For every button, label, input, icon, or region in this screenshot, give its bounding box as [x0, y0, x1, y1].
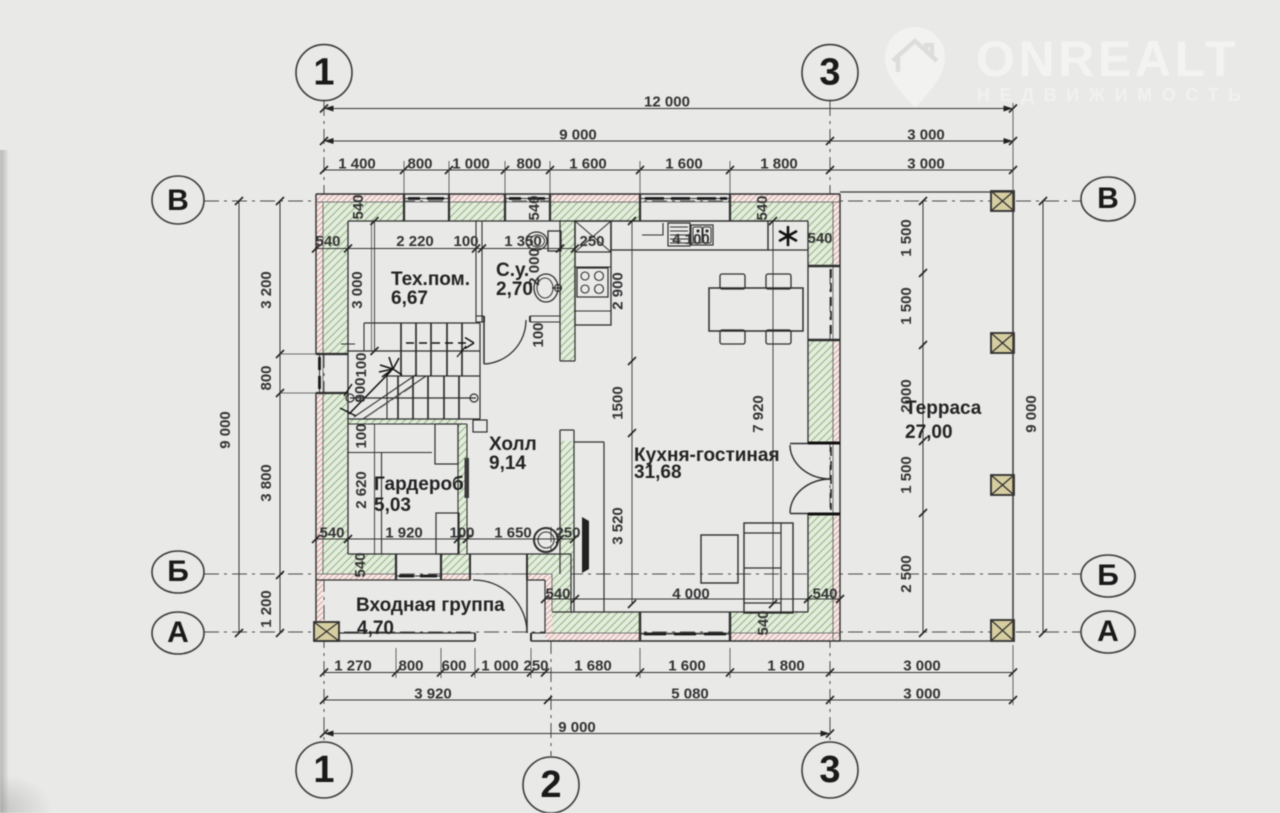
dim row bottom 1: chain [324, 672, 1013, 674]
axis line 2 (vertical, bottom only) [550, 527, 552, 756]
annex right wall, green [552, 574, 571, 612]
svg-text:3 000: 3 000 [349, 271, 366, 309]
dim row top 3: chain [324, 169, 1013, 171]
landing edge line near window [341, 343, 355, 345]
svg-text:1: 1 [313, 51, 334, 93]
axis circle B right [1081, 555, 1135, 597]
door opening annex bottom (entrance) [474, 633, 476, 641]
wardrobe shelving [347, 452, 432, 454]
svg-text:9 000: 9 000 [559, 127, 597, 144]
svg-text:100: 100 [453, 233, 478, 250]
svg-text:С.у.: С.у. [496, 260, 529, 281]
sink bathroom [534, 274, 558, 302]
svg-text:Входная группа: Входная группа [356, 595, 505, 616]
post at stair corner [473, 420, 487, 432]
svg-text:А: А [167, 616, 189, 649]
svg-text:1 920: 1 920 [385, 525, 423, 542]
svg-text:540: 540 [352, 552, 369, 577]
dim row top 2: 9000 + 3000 [324, 140, 1013, 142]
extension lines bottom [395, 648, 397, 678]
svg-text:Б: Б [167, 555, 189, 588]
axis circle 3 top [802, 45, 858, 101]
exterior wall right, red outer layer [833, 202, 840, 266]
terrace columns [991, 191, 1014, 211]
svg-text:2 220: 2 220 [396, 233, 434, 250]
dining table [709, 288, 803, 331]
svg-text:250: 250 [555, 525, 580, 542]
svg-text:540: 540 [545, 586, 570, 603]
svg-text:1 500: 1 500 [898, 287, 915, 325]
svg-text:Б: Б [1097, 559, 1119, 592]
exterior wall top, red outer layer [316, 194, 404, 202]
exterior wall right, green layer [808, 202, 833, 266]
svg-text:3 920: 3 920 [414, 686, 452, 703]
exterior wall left, green inner layer [323, 221, 348, 354]
exterior wall bottom, green layer [552, 612, 640, 633]
wall outlines [316, 193, 840, 195]
tech room dim double line [371, 221, 373, 351]
svg-text:4 100: 4 100 [672, 231, 710, 248]
axis circle A left [152, 612, 204, 654]
svg-text:1 800: 1 800 [767, 658, 805, 675]
svg-text:5 080: 5 080 [671, 686, 709, 703]
watermark logo ONREALT [885, 27, 1251, 108]
svg-text:3 000: 3 000 [907, 156, 945, 173]
svg-text:540: 540 [350, 194, 367, 219]
dim row bottom 2 [324, 699, 1013, 701]
svg-text:250: 250 [579, 233, 604, 250]
interior dim line y539 [316, 538, 574, 540]
svg-text:1 500: 1 500 [898, 219, 915, 257]
svg-text:4,70: 4,70 [357, 618, 394, 639]
svg-text:1 350: 1 350 [504, 233, 542, 250]
terrace outline [1012, 192, 1014, 641]
svg-text:3 000: 3 000 [903, 686, 941, 703]
svg-text:3 000: 3 000 [907, 127, 945, 144]
extension lines left [280, 353, 316, 355]
interior dim line y599 [545, 598, 840, 600]
axis circle 1 bottom [296, 742, 352, 798]
svg-text:2: 2 [540, 764, 561, 806]
svg-text:7 920: 7 920 [750, 395, 767, 433]
svg-text:1 600: 1 600 [668, 658, 706, 675]
window W1 top wall [403, 194, 405, 221]
tv console [574, 441, 604, 443]
door hall-annex [469, 554, 471, 580]
stove 4 burners [577, 268, 608, 297]
interior wall right of bathroom, green [560, 221, 575, 361]
svg-text:В: В [1097, 182, 1119, 215]
svg-text:Холл: Холл [489, 434, 537, 455]
svg-text:ONREALT: ONREALT [976, 31, 1239, 87]
window right wall kitchen [808, 265, 840, 267]
svg-text:3: 3 [819, 51, 840, 93]
svg-text:3 800: 3 800 [258, 464, 275, 502]
window wardrobe south wall [395, 554, 397, 580]
stair handrail [350, 397, 476, 399]
dim row top 1: 12000 [324, 108, 1013, 110]
south wall of hall/wardrobe, green layer [322, 554, 396, 574]
svg-text:600: 600 [441, 658, 466, 675]
south wall of hall, red layer [316, 574, 396, 580]
svg-text:540: 540 [807, 230, 832, 247]
axis circle 3 bottom [802, 742, 858, 798]
stair small dims [374, 424, 376, 554]
svg-text:9 000: 9 000 [1023, 395, 1040, 433]
wardrobe sliding door dark [465, 458, 470, 498]
stair break lines [354, 374, 417, 417]
svg-text:900: 900 [352, 377, 369, 402]
axis line B (horizontal) [204, 200, 1081, 202]
stair direction arrow [349, 371, 391, 414]
axis line A (horizontal) [204, 631, 1081, 633]
window bottom wall kitchen [639, 612, 641, 641]
svg-text:5,03: 5,03 [374, 495, 411, 516]
dim row bottom 3: 9000 [324, 733, 830, 735]
svg-text:100: 100 [530, 322, 547, 347]
svg-text:Терраса: Терраса [905, 398, 982, 419]
svg-text:1 200: 1 200 [258, 590, 275, 628]
svg-text:1 400: 1 400 [338, 156, 376, 173]
axis circle V right [1081, 177, 1135, 221]
svg-text:4 000: 4 000 [672, 586, 710, 603]
svg-text:540: 540 [755, 610, 772, 635]
svg-text:800: 800 [398, 658, 423, 675]
kitchen top counter [611, 221, 768, 250]
kitchen double sink [691, 225, 713, 245]
interior walls outlines [559, 221, 561, 361]
sofa [744, 523, 793, 613]
tv [582, 517, 589, 573]
window left wall (stairs) [316, 353, 348, 355]
svg-text:Гардероб: Гардероб [374, 474, 464, 495]
svg-text:1 680: 1 680 [574, 658, 612, 675]
svg-text:27,00: 27,00 [905, 422, 953, 443]
axis circle B left [152, 551, 204, 593]
exterior wall left, red outer layer [316, 202, 323, 354]
svg-text:3 000: 3 000 [903, 658, 941, 675]
axis circle 1 top [296, 45, 352, 101]
svg-text:Тех.пом.: Тех.пом. [391, 269, 470, 290]
interior dim col x632 [631, 221, 633, 604]
exterior wall top, green inner layer [322, 202, 404, 221]
dim col left chain [279, 201, 281, 633]
interior dim col x773 (7920) [772, 221, 774, 604]
svg-text:1 270: 1 270 [334, 658, 372, 675]
svg-text:12 000: 12 000 [644, 94, 690, 111]
edge shadow left [0, 150, 9, 813]
svg-text:100: 100 [353, 423, 370, 448]
svg-text:2 620: 2 620 [353, 471, 370, 509]
svg-text:3 200: 3 200 [258, 271, 275, 309]
svg-text:1 800: 1 800 [760, 156, 798, 173]
svg-text:В: В [167, 184, 189, 217]
partition stairs/wardrobe, green [348, 419, 462, 424]
axis circle A right [1081, 611, 1135, 653]
column bottom-left [314, 622, 339, 641]
svg-text:2 900: 2 900 [610, 272, 627, 310]
dim col right chain (terrace) [922, 201, 924, 633]
svg-text:9,14: 9,14 [489, 453, 526, 474]
detail circle node [534, 528, 558, 552]
svg-text:1 000: 1 000 [452, 156, 490, 173]
axis circle V left [152, 176, 204, 224]
oven/dishwasher [668, 223, 690, 246]
staircase [364, 322, 480, 324]
extension lines top [403, 161, 405, 194]
svg-text:540: 540 [319, 525, 344, 542]
svg-text:9 000: 9 000 [558, 719, 596, 736]
exterior wall bottom, red outer layer [545, 633, 640, 641]
axis line 1 (vertical) [323, 101, 325, 741]
bathroom south wall with door opening [476, 315, 484, 317]
svg-text:1: 1 [313, 749, 334, 791]
svg-text:2,70: 2,70 [496, 279, 533, 300]
svg-text:2 500: 2 500 [898, 555, 915, 593]
svg-text:800: 800 [516, 156, 541, 173]
svg-text:100: 100 [353, 352, 370, 377]
door bathroom [483, 320, 485, 364]
svg-text:1 500: 1 500 [898, 456, 915, 494]
wardrobe top partition line [348, 423, 467, 425]
svg-text:540: 540 [526, 195, 543, 220]
svg-text:1500: 1500 [610, 386, 627, 419]
axis line B2 (horizontal, mid) [204, 573, 1081, 575]
french door right wall [808, 442, 840, 445]
svg-text:9 000: 9 000 [217, 411, 234, 449]
interior dim line y248 [316, 248, 575, 250]
svg-text:540: 540 [754, 195, 771, 220]
svg-text:800: 800 [258, 365, 275, 390]
dim col left 9000 [238, 201, 240, 633]
svg-text:НЕДВИЖИМОСТЬ: НЕДВИЖИМОСТЬ [977, 85, 1251, 105]
axis circle 2 bottom [523, 757, 579, 813]
svg-text:1 600: 1 600 [569, 156, 607, 173]
chairs [720, 274, 745, 289]
boiler asterisk symbol [780, 227, 796, 245]
axis line 3 (vertical) [829, 101, 831, 741]
kitchen cabinet column with fridge [575, 221, 611, 325]
svg-text:31,68: 31,68 [634, 462, 682, 483]
svg-text:А: А [1097, 615, 1119, 648]
interior dim col 3000 label [371, 217, 379, 225]
partition wardrobe/hall [458, 424, 467, 554]
annex right wall, red [545, 580, 552, 633]
svg-text:100: 100 [449, 525, 474, 542]
coffee table [701, 535, 738, 583]
interior wall hall/kitchen, green [560, 441, 574, 573]
svg-text:3: 3 [819, 749, 840, 791]
toilet [548, 231, 561, 251]
svg-text:1 650: 1 650 [494, 525, 532, 542]
svg-text:540: 540 [812, 586, 837, 603]
svg-text:3 520: 3 520 [610, 507, 627, 545]
svg-text:1 600: 1 600 [665, 156, 703, 173]
svg-text:250: 250 [523, 658, 548, 675]
window W3 kitchen top wall [639, 194, 641, 221]
svg-text:540: 540 [315, 233, 340, 250]
partition tech/bathroom [475, 221, 477, 322]
svg-text:800: 800 [407, 156, 432, 173]
window W2 top wall [504, 194, 506, 221]
dim col right 9000 [1042, 201, 1044, 633]
svg-text:6,67: 6,67 [391, 288, 428, 309]
svg-text:1 000: 1 000 [481, 658, 519, 675]
